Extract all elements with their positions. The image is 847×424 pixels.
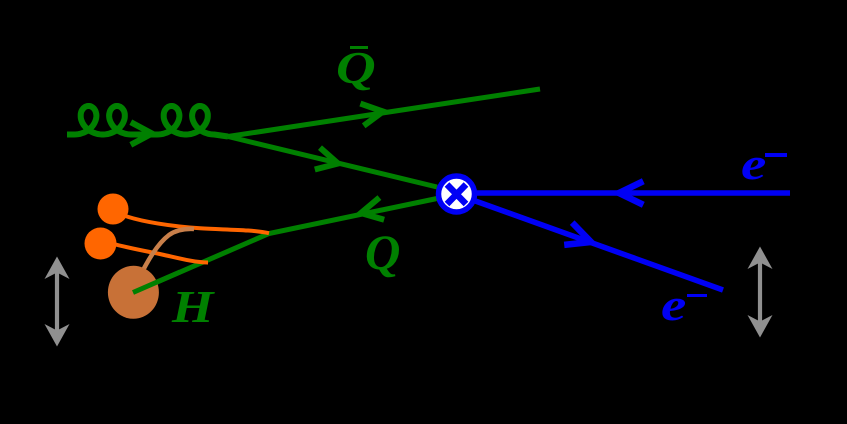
arrow on Qbar line	[360, 104, 383, 126]
heavy hadron blob H (brown)	[108, 266, 159, 319]
hadron blob strand B (orange, lower circle to Q line)	[112, 244, 208, 263]
incoming electron line e- (right, horizontal)	[477, 190, 790, 196]
quark internal line (gluon vertex to photon vertex)	[228, 137, 437, 188]
label e- incoming	[741, 141, 766, 187]
arrow on Q line	[361, 198, 384, 220]
quark line Q (vertex down-left to hadron blob)	[133, 199, 437, 293]
arrow on incoming e- line	[619, 181, 643, 205]
arrow on internal quark line	[315, 148, 338, 170]
hadron blob strand A (orange, top circle to Q line)	[121, 215, 269, 234]
label Qbar	[336, 45, 376, 91]
gluon g incoming curly line	[67, 106, 228, 137]
gray double arrow right	[748, 247, 773, 338]
photon vertex crossed circle (x)	[439, 176, 475, 212]
antiquark line Qbar (vertex to upper right)	[228, 89, 540, 137]
label Q	[365, 227, 400, 277]
light hadron circle 2 (orange)	[85, 228, 117, 260]
gluon momentum arrow	[131, 122, 152, 145]
gray double arrow left	[45, 257, 70, 347]
hadron strand D (tan, H blob to strand A)	[139, 229, 194, 278]
outgoing electron line e- (down-right)	[474, 201, 723, 291]
light hadron circle 1 (orange)	[98, 194, 129, 225]
label e- outgoing	[661, 282, 686, 328]
Q line tip drawn over blob	[133, 272, 180, 293]
label H	[172, 284, 214, 330]
arrow on outgoing e- line	[564, 223, 591, 245]
